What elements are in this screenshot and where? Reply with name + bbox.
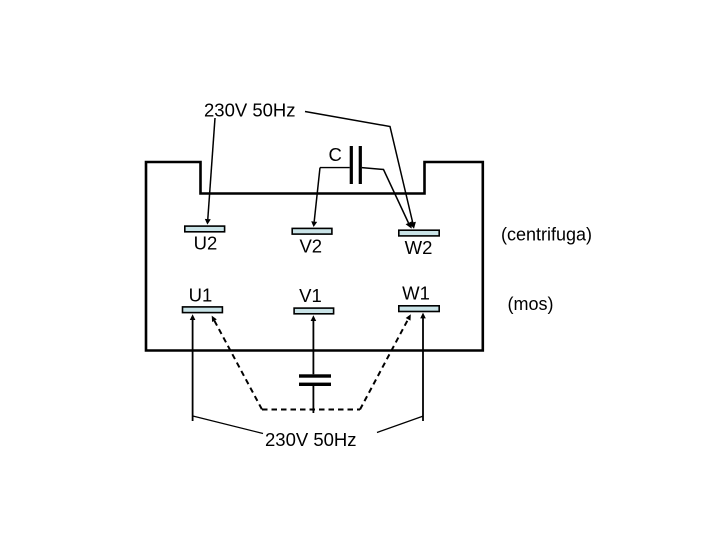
leader from bottom label to W1 wire bbox=[377, 416, 423, 432]
arrowhead at U1 bbox=[190, 314, 196, 320]
wire leader from top label to W2 bbox=[305, 112, 413, 224]
wire from V1 down to capacitor C2 bbox=[312, 321, 314, 375]
arrowhead at W2 (capacitor wire) bbox=[406, 221, 412, 228]
svg-text:W1: W1 bbox=[402, 282, 430, 303]
supply wire up to U1 bbox=[192, 320, 194, 422]
arrowhead at U2 bbox=[205, 219, 211, 225]
terminal U2 bbox=[185, 226, 225, 232]
arrowhead at V1 bbox=[311, 315, 317, 321]
svg-text:W2: W2 bbox=[405, 237, 433, 258]
svg-text:230V 50Hz: 230V 50Hz bbox=[265, 429, 357, 450]
leader from bottom label to U1 wire bbox=[193, 416, 263, 434]
arrowhead at V2 bbox=[311, 221, 317, 227]
svg-text:V2: V2 bbox=[299, 236, 322, 257]
svg-text:(mos): (mos) bbox=[508, 294, 554, 314]
arrowhead at W1 bbox=[420, 313, 426, 319]
wire leader from top label to U2 bbox=[208, 118, 215, 219]
svg-text:C: C bbox=[329, 144, 342, 165]
svg-text:(centrifuga): (centrifuga) bbox=[501, 225, 592, 245]
svg-text:U2: U2 bbox=[194, 233, 218, 254]
dashed arrowhead at W1 bbox=[406, 314, 411, 320]
terminal W2 bbox=[399, 230, 439, 236]
terminal V2 bbox=[292, 228, 332, 234]
terminal V1 bbox=[294, 308, 334, 314]
terminal box enclosure outline bbox=[146, 162, 483, 351]
arrowhead at W2 (leader) bbox=[409, 222, 416, 229]
dashed arrowhead at U1 bbox=[212, 316, 217, 322]
wire from capacitor left plate bbox=[320, 167, 350, 169]
terminal U1 bbox=[183, 307, 223, 313]
svg-text:230V 50Hz: 230V 50Hz bbox=[204, 100, 296, 121]
dashed link: right diagonal segment bbox=[360, 319, 408, 409]
dashed link U1 to W1: left diagonal segment bbox=[214, 321, 262, 410]
wire down to V2 bbox=[314, 168, 320, 222]
dashed link: bottom horizontal segment bbox=[262, 409, 360, 411]
svg-text:V1: V1 bbox=[299, 285, 322, 306]
wire from capacitor C2 down to dashed net bbox=[312, 386, 314, 413]
capacitor C2 plates (bottom) bbox=[299, 374, 331, 377]
capacitor C1 plates (top) bbox=[350, 146, 353, 184]
terminal W1 bbox=[399, 306, 439, 312]
svg-text:U1: U1 bbox=[189, 285, 213, 306]
wire from capacitor right plate to W2 bbox=[362, 168, 409, 223]
supply wire up to W1 bbox=[422, 318, 424, 421]
